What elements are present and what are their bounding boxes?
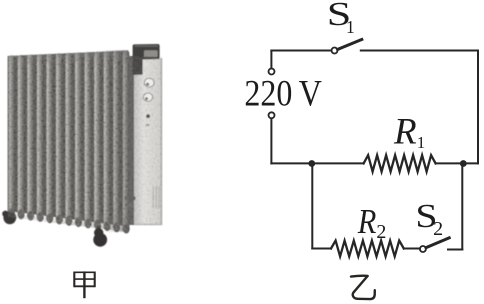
switch S1 lever: [338, 39, 362, 49]
wire: right rail: [477, 51, 479, 164]
left caster wheel: [2, 211, 16, 225]
heater fin backdrop shadow: [8, 51, 128, 227]
gap strip between fins and panel: [129, 56, 134, 225]
junction node right: [460, 160, 467, 167]
wire: top right segment: [361, 50, 478, 52]
wire: bottom row mid: [404, 248, 420, 250]
svg-text:R: R: [357, 202, 376, 241]
handle top highlight: [135, 45, 159, 47]
wire: branch left vertical: [311, 163, 313, 248]
right-side fin shadow: [100, 50, 129, 232]
side control panel: [134, 58, 162, 226]
switch S2 lever: [426, 238, 449, 248]
handle grip hole: [144, 50, 158, 57]
svg-text:1: 1: [346, 17, 355, 37]
svg-text:220 V: 220 V: [244, 72, 322, 113]
panel vent slots: [153, 186, 160, 208]
svg-text:2: 2: [376, 221, 386, 243]
wire: top left segment: [271, 50, 331, 52]
resistor R2 zigzag: [331, 241, 404, 257]
small label dash: [146, 124, 150, 126]
handle bracket: [133, 44, 160, 75]
source terminal lower: [269, 112, 275, 118]
photo grain overlay: [8, 51, 162, 233]
wire: left rail lower: [270, 119, 272, 164]
fin bottom tip nubs: [8, 208, 130, 234]
wire: branch right vertical: [461, 163, 463, 249]
wire: bottom row left: [312, 248, 331, 250]
knob 2: [143, 93, 152, 101]
fin vertical shading: [8, 51, 128, 233]
heater fins: [8, 50, 129, 232]
label yi (Chinese character): [351, 276, 375, 299]
svg-text:1: 1: [417, 133, 426, 152]
front caster wheel: [93, 226, 107, 247]
wire: middle row left: [271, 162, 363, 164]
panel bottom edge: [134, 224, 162, 225]
wire: middle row right: [436, 162, 478, 164]
svg-text:R: R: [393, 112, 417, 153]
cord holder: [125, 196, 136, 200]
svg-text:2: 2: [433, 218, 443, 240]
wire: bottom right stub: [448, 249, 462, 251]
label jia (Chinese character): [74, 271, 94, 298]
switch S1 pivot circle: [332, 48, 338, 54]
junction node left: [308, 160, 315, 167]
resistor R1 zigzag: [364, 155, 436, 171]
source terminal upper: [269, 69, 275, 75]
left fin silhouette: [8, 56, 10, 214]
indicator dot: [146, 114, 150, 118]
panel right edge line: [161, 58, 163, 225]
knob 1: [144, 78, 154, 87]
wire: left rail upper: [270, 51, 272, 69]
switch S2 pivot circle: [420, 246, 426, 252]
